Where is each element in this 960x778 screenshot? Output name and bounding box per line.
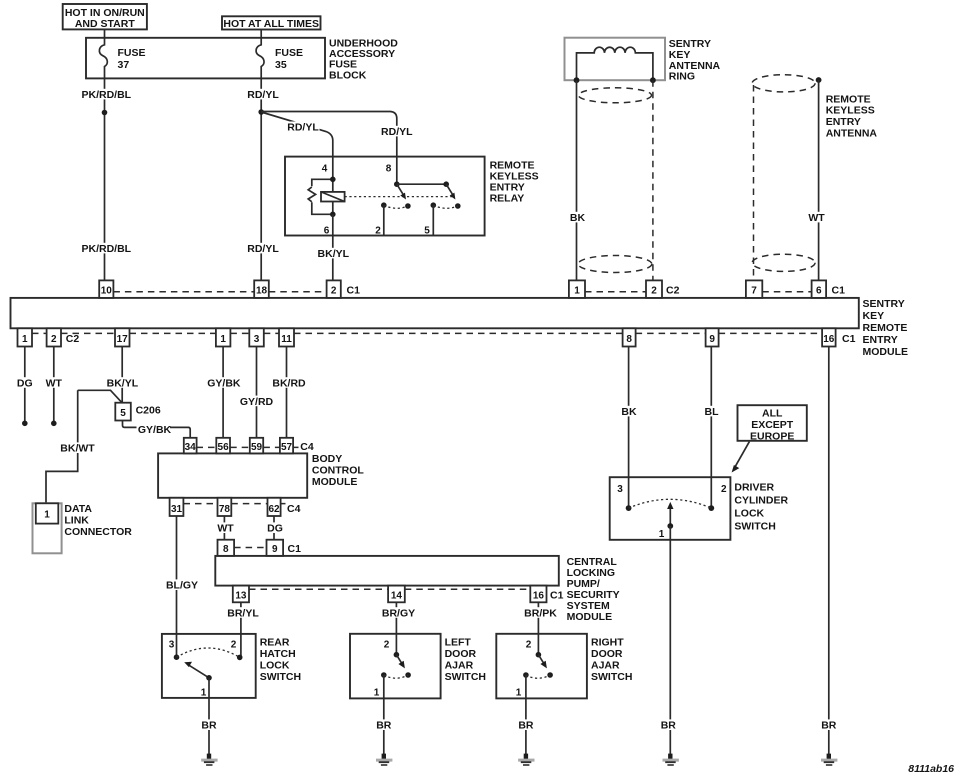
svg-text:C1: C1 [288,543,302,555]
svg-text:14: 14 [391,590,403,601]
data link connector pin 1 [36,503,59,523]
pin 57 BCM [280,438,293,454]
svg-text:6: 6 [816,286,822,297]
svg-text:C4: C4 [287,503,301,515]
pin 8 bottom [623,328,636,346]
S2 movable arm [396,655,405,669]
svg-text:EXCEPT: EXCEPT [751,419,794,431]
label RD/YL at relay pin 4 [287,122,320,134]
svg-text:HOT IN ON/RUN: HOT IN ON/RUN [65,7,145,19]
S2 contact dot pin2 [394,652,400,658]
svg-text:BL/GY: BL/GY [166,580,198,592]
svg-text:2: 2 [331,286,337,297]
svg-text:1: 1 [516,688,522,699]
wire BK antenna ring to pin1 [576,80,578,280]
label GY/RD [239,396,275,408]
wire BR S1 pin1 to ground [208,678,210,755]
connector dashed line BCM top C4 [197,446,299,448]
svg-text:FUSE: FUSE [118,47,146,59]
svg-text:WT: WT [46,377,63,389]
svg-text:BR: BR [201,720,217,732]
relay contact 1 throw dot B [405,203,411,209]
svg-text:REAR: REAR [260,636,290,648]
svg-text:DG: DG [267,523,283,535]
svg-text:35: 35 [275,59,287,71]
label GY/BK at C206 [137,423,172,436]
S1 travel arc [177,648,240,657]
svg-text:56: 56 [218,442,230,453]
S1 contact dot pin3 [174,654,180,660]
label DATA LINK CONNECTOR [64,503,132,538]
note box ALL EXCEPT EUROPE [738,405,807,442]
svg-text:MODULE: MODULE [863,346,909,358]
svg-text:REMOTE: REMOTE [863,322,908,334]
relay contact 2 throw dot A [431,202,437,208]
svg-text:13: 13 [235,590,247,601]
svg-text:RD/YL: RD/YL [381,126,413,138]
junction dot on RD/YL [258,109,264,115]
svg-text:RD/YL: RD/YL [247,89,279,101]
S1 contact dot pin2 [237,655,243,661]
svg-text:LOCK: LOCK [734,508,764,520]
label DG [15,377,35,389]
pin 16 CLP [530,586,546,603]
svg-text:59: 59 [251,442,263,453]
svg-text:AJAR: AJAR [591,659,620,671]
svg-text:AJAR: AJAR [445,659,474,671]
label BR S4 [659,719,677,731]
fuse block box [86,38,325,79]
svg-text:RING: RING [669,71,695,83]
svg-text:9: 9 [272,544,278,555]
relay contact 1 throw dot A [381,202,387,208]
module U3 CENTRAL LOCKING PUMP bar [215,556,559,586]
remote keyless entry antenna shield ellipse top [752,75,815,92]
connector dashed line CLP bottom C1 [249,588,530,590]
relay coil element box [321,192,345,202]
label LEFT DOOR AJAR SWITCH [445,636,486,683]
wire RD/YL fuse35 to module pin18 [260,78,262,280]
svg-text:LINK: LINK [64,514,89,526]
svg-text:10: 10 [101,286,113,297]
relay contact 2 throw dot B [455,203,461,209]
wire BR S4 pin1 to ground [669,526,671,755]
svg-text:RD/YL: RD/YL [287,122,319,134]
pin 11 bottom [279,328,294,346]
svg-text:BL: BL [705,406,720,418]
svg-text:2: 2 [721,484,727,495]
relay K1 REMOTE KEYLESS ENTRY RELAY box [285,157,485,236]
svg-text:CONNECTOR: CONNECTOR [64,526,132,538]
svg-text:2: 2 [651,286,657,297]
junction dot antenna ring left [574,77,580,83]
svg-text:AND START: AND START [75,18,135,30]
svg-text:BODY: BODY [312,453,342,465]
label FUSE 37 [118,47,146,71]
svg-text:8: 8 [223,544,229,555]
svg-text:C1: C1 [842,333,856,345]
label BR S2 [375,719,393,731]
label BR/GY [380,607,417,619]
label SENTRY KEY ANTENNA RING [669,38,721,83]
S1 movable arm [184,662,209,678]
wire BR/GY CLP pin14 to left door ajar switch [395,602,397,654]
label BK/WT [60,442,96,454]
label REMOTE KEYLESS ENTRY RELAY [490,159,539,204]
svg-text:2: 2 [375,225,381,236]
svg-text:DOOR: DOOR [445,648,477,660]
switch S2 LEFT DOOR AJAR SWITCH box [350,634,441,699]
pin 62 BCM [268,498,281,516]
svg-text:1: 1 [574,286,580,297]
wire BR/YL CLP pin13 to rear hatch lock switch [240,602,242,657]
ground G3 [518,754,534,765]
pin 2 C2 top [646,280,662,298]
pin 56 BCM [216,438,230,454]
pin 14 CLP [388,586,405,603]
label PK/RD/BL lower [82,243,132,255]
svg-text:ANTENNA: ANTENNA [826,127,878,139]
svg-text:BLOCK: BLOCK [329,70,367,82]
pin 59 BCM [250,438,263,454]
junction dot coil bottom [330,212,336,218]
label BK antenna [567,212,587,224]
wire DG BCM pin62 to CLP pin9 [273,516,275,540]
wire GY/RD module pin3 to BCM pin59 [256,347,258,438]
pin 3 bottom [249,328,263,346]
wire BR module pin16 to ground [828,347,830,755]
svg-text:3: 3 [169,640,175,651]
pin 10 C1 [99,280,113,298]
wire relay pin 6 down [332,214,334,280]
svg-text:8: 8 [626,334,632,345]
label BK/RD [271,377,307,389]
svg-text:C2: C2 [666,285,680,297]
pin 2 C2 bottom [47,328,61,346]
relay contact 1 movable arm [397,184,406,199]
svg-text:ENTRY: ENTRY [863,334,898,346]
fuse F35 [256,38,264,79]
label WT antenna [806,212,826,224]
svg-text:RELAY: RELAY [490,192,525,204]
junction dot on PK/RD/BL [102,110,108,116]
module U1 SENTRY KEY REMOTE ENTRY MODULE bar [11,298,859,328]
junction dot antenna ring right [650,77,656,83]
svg-text:1: 1 [44,510,50,521]
svg-text:KEY: KEY [863,310,885,322]
wire BR S2 pin1 to ground [383,675,385,755]
svg-text:8: 8 [386,164,392,175]
svg-text:1: 1 [374,688,380,699]
label UNDERHOOD ACCESSORY FUSE BLOCK [329,37,398,81]
ground G4 [663,754,679,765]
pin 16 bottom [822,328,836,346]
svg-text:SWITCH: SWITCH [445,671,486,683]
S2 throw dot B [405,672,411,678]
pin 6 C1 top [812,280,827,298]
wire stub hot1 to fuse block [104,29,106,37]
fuse F37 [99,38,107,79]
label BL/GY [164,579,200,591]
svg-text:WT: WT [808,212,825,224]
svg-text:1: 1 [220,334,226,345]
wire BK/RD module pin11 to BCM pin57 [286,347,288,438]
ground G5 [821,754,837,765]
wire DG module pin1 dead end [24,347,26,422]
pin 78 BCM [218,498,232,516]
svg-text:16: 16 [533,590,545,601]
wire GY/BK from C206 to BCM pin34 [123,421,191,438]
svg-text:CONTROL: CONTROL [312,464,364,476]
remote keyless entry antenna shield ellipse bottom [752,254,815,271]
pin 9 CLP [267,540,284,556]
label FUSE 35 [275,47,303,71]
label WT [44,377,64,389]
svg-text:BR/GY: BR/GY [382,607,415,619]
label BK [619,406,639,418]
svg-text:18: 18 [256,286,268,297]
label RD/YL at relay pin 8 [381,126,414,138]
svg-text:5: 5 [424,225,430,236]
svg-text:BR: BR [376,720,392,732]
label CENTRAL LOCKING PUMP SECURITY SYSTEM MODULE [567,556,620,623]
svg-text:3: 3 [617,484,623,495]
svg-text:ENTRY: ENTRY [826,116,861,128]
S4 travel arc [629,499,712,508]
connector dashed line C2/C1 top right [585,291,812,293]
relay contact 2 travel arc [433,205,458,208]
wire WT module pin2 dead end [53,347,55,422]
pin 2 C1 top [327,280,341,298]
switch S3 RIGHT DOOR AJAR SWITCH box [496,634,587,699]
wire branch RD/YL to relay pin 8 [261,112,397,185]
wire BK/WT down to data link connector [46,390,78,503]
connector dashed line bottom of module [32,332,822,334]
svg-text:GY/BK: GY/BK [138,424,172,436]
relay linkage dashed line [345,196,453,198]
pin 8 CLP [218,540,235,556]
svg-text:LEFT: LEFT [445,636,472,648]
svg-text:BR: BR [821,720,837,732]
label BK/YL [105,377,140,389]
svg-text:BR/PK: BR/PK [524,607,557,619]
data link connector box [33,503,62,553]
connector dashed line BCM bottom C4 [184,503,286,505]
relay coil zigzag [308,187,315,202]
wire BK module pin8 to driver cylinder lock switch [628,347,630,509]
svg-text:2: 2 [384,640,390,651]
svg-text:BR: BR [661,720,677,732]
wire relay pin 5 stub [432,205,434,235]
label BR S1 [200,719,218,731]
pin 13 CLP [233,586,249,603]
svg-text:LOCK: LOCK [260,659,290,671]
svg-text:WT: WT [217,523,234,535]
wire BR/PK CLP pin16 to right door ajar switch [537,602,539,654]
label RIGHT DOOR AJAR SWITCH [591,636,632,683]
svg-text:37: 37 [118,59,130,71]
svg-text:MODULE: MODULE [312,476,358,488]
junction dot coil top [330,177,336,183]
label RD/YL upper [246,89,279,101]
svg-text:BK: BK [621,406,637,418]
svg-text:BR: BR [518,720,534,732]
svg-text:HOT AT ALL TIMES: HOT AT ALL TIMES [223,18,319,30]
relay contact 1 travel arc [384,205,408,208]
wire PK/RD/BL fuse37 to module pin10 [104,78,106,280]
svg-text:SWITCH: SWITCH [260,671,301,683]
S4 pivot dot pin1 [667,523,673,529]
wire WT BCM pin78 to CLP pin8 [223,516,225,540]
wire BK/YL module pin17 to C206 [121,347,123,403]
svg-text:3: 3 [254,334,260,345]
svg-text:SWITCH: SWITCH [734,521,775,533]
svg-text:1: 1 [22,334,28,345]
label BR S3 [517,719,535,731]
shield ellipse top left antenna [579,88,652,103]
svg-text:C2: C2 [66,333,80,345]
svg-text:BK/YL: BK/YL [107,377,139,389]
svg-text:SWITCH: SWITCH [591,671,632,683]
wire shield dashed to pin2 [652,80,654,280]
svg-text:C1: C1 [832,285,846,297]
junction dot antenna WT top [816,77,822,83]
S2 travel arc [384,675,408,678]
pin 9 bottom [706,328,719,346]
svg-text:ALL: ALL [762,408,783,420]
wire relay contact bus [397,183,446,185]
S3 movable arm [538,655,547,669]
label BL [702,406,722,418]
label BR/PK [522,607,559,619]
svg-text:17: 17 [117,334,129,345]
ground G2 [376,754,392,765]
svg-text:C4: C4 [300,441,314,453]
svg-text:SENTRY: SENTRY [863,298,905,310]
wire BL module pin9 to driver cylinder lock switch [710,347,712,509]
inductor coil sentry key antenna [577,47,653,80]
svg-text:C1: C1 [550,589,564,601]
module U2 BODY CONTROL MODULE box [158,453,307,497]
S1 pivot dot pin1 [206,675,212,681]
S2 throw dot pin1 [381,672,387,678]
S4 movable arm [667,502,673,526]
svg-text:62: 62 [268,504,280,515]
svg-text:RD/YL: RD/YL [247,243,279,255]
svg-text:BK/WT: BK/WT [60,443,95,455]
svg-text:9: 9 [709,334,715,345]
label WT lower [216,522,236,534]
dead end dot WT [51,421,57,427]
label REMOTE KEYLESS ENTRY ANTENNA [826,93,878,139]
S3 travel arc [526,675,550,678]
svg-text:DRIVER: DRIVER [734,482,774,494]
pin 34 BCM [184,438,197,454]
label RD/YL lower [246,243,279,255]
svg-text:RIGHT: RIGHT [591,636,624,648]
wire BR S3 pin1 to ground [525,675,527,755]
svg-text:16: 16 [823,334,835,345]
pin 7 C1 top [746,280,762,298]
svg-text:GY/RD: GY/RD [240,396,274,408]
svg-text:BR/YL: BR/YL [227,607,259,619]
label BR module16 [820,719,838,731]
power label HOT IN ON/RUN AND START [63,4,147,30]
wire branch RD/YL to relay pin 4 [261,112,333,179]
S3 contact dot pin2 [536,652,542,658]
svg-text:C1: C1 [347,285,361,297]
svg-text:7: 7 [751,286,757,297]
connector dashed line C1 top left [113,291,326,293]
svg-text:8111ab16: 8111ab16 [908,763,954,775]
wire stub hot2 to fuse block [260,30,262,38]
pin 18 C1 [254,280,269,298]
switch S1 REAR HATCH LOCK SWITCH box [162,634,256,698]
svg-text:REMOTE: REMOTE [826,93,871,105]
svg-text:FUSE: FUSE [275,47,303,59]
S3 throw dot pin1 [523,672,529,678]
svg-text:EUROPE: EUROPE [750,430,794,442]
relay contact 2 movable arm [446,184,455,199]
svg-text:5: 5 [120,408,126,419]
svg-text:1: 1 [659,529,665,540]
pin 1 C2 bottom [18,328,33,346]
svg-text:PK/RD/BL: PK/RD/BL [82,89,132,101]
svg-text:34: 34 [185,442,197,453]
shield ellipse bottom left antenna [578,256,652,273]
S4 contact dot pin3 [626,505,632,511]
S3 throw dot B [547,672,553,678]
connector dashed line CLP top C1 [234,547,266,549]
relay coil vertical wire [332,179,334,214]
label BK/YL relay output [316,248,350,260]
wire GY/BK module pin1 to BCM pin56 [222,347,224,438]
svg-text:BK/RD: BK/RD [272,377,306,389]
label SENTRY KEY REMOTE ENTRY MODULE [863,298,909,358]
relay coil loop wire [312,179,333,214]
dead end dot DG [22,421,28,427]
svg-text:1: 1 [201,688,207,699]
svg-text:6: 6 [324,225,330,236]
svg-text:CYLINDER: CYLINDER [734,495,788,507]
svg-text:2: 2 [231,640,237,651]
svg-text:MODULE: MODULE [567,611,613,623]
note arrow to driver cylinder lock switch [732,442,750,473]
label GY/BK [206,377,242,389]
label BR/YL [225,607,261,619]
svg-text:BK: BK [570,212,586,224]
junction dot relay contact 1 common [394,181,400,187]
svg-text:KEYLESS: KEYLESS [826,105,875,117]
svg-text:PK/RD/BL: PK/RD/BL [82,243,132,255]
label DRIVER CYLINDER LOCK SWITCH [734,482,788,533]
label PK/RD/BL upper [82,89,132,101]
svg-text:2: 2 [526,640,532,651]
svg-text:31: 31 [171,504,183,515]
svg-text:HATCH: HATCH [260,648,296,660]
wire BL/GY BCM pin31 to rear hatch lock switch [176,516,178,657]
connector C206 pin 5 [115,403,131,421]
label DG lower [265,522,285,534]
pin 31 BCM [170,498,184,516]
svg-text:DG: DG [17,377,33,389]
wire BK/WT branch to C206 [78,390,122,402]
switch S4 DRIVER CYLINDER LOCK SWITCH box [610,477,731,540]
svg-text:11: 11 [281,334,292,345]
svg-text:C206: C206 [136,404,161,416]
pin 1 C2 top [569,280,585,298]
svg-text:BK/YL: BK/YL [318,248,350,260]
